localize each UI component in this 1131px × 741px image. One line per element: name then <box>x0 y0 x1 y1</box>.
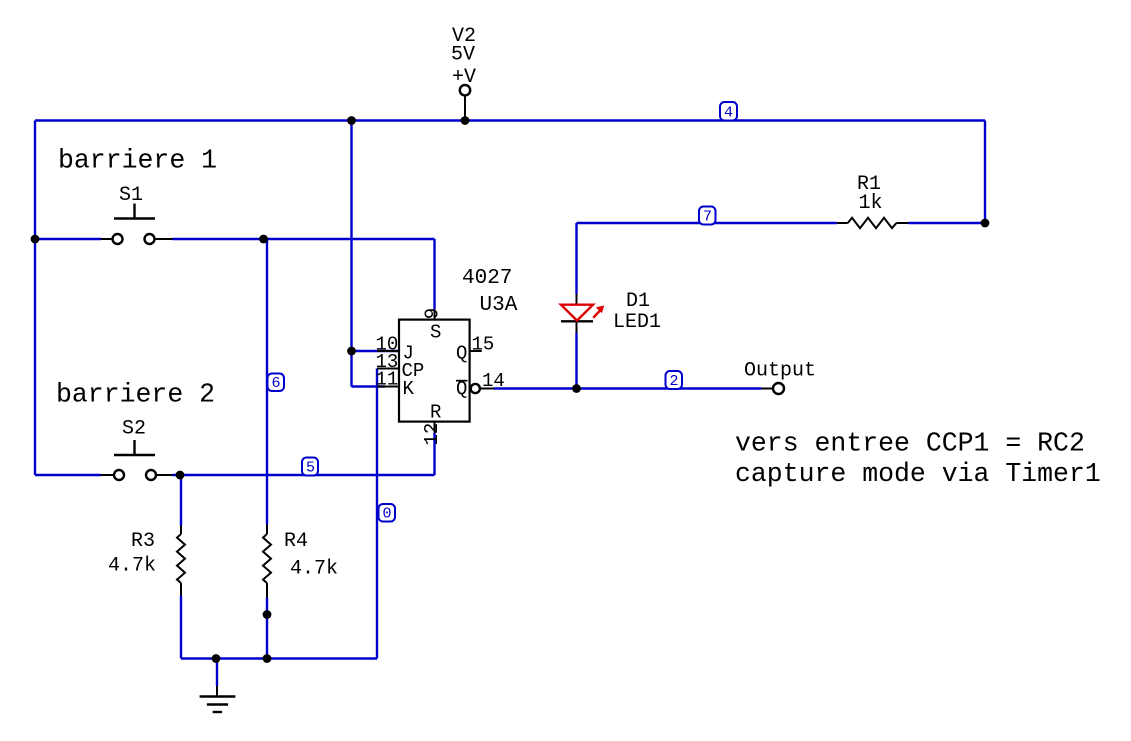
svg-text:R3: R3 <box>131 530 155 553</box>
svg-text:barriere 2: barriere 2 <box>56 380 215 410</box>
svg-text:4: 4 <box>724 105 733 122</box>
svg-text:0: 0 <box>383 506 392 523</box>
svg-text:Output: Output <box>744 360 816 383</box>
svg-text:1k: 1k <box>859 192 883 215</box>
svg-text:vers entree CCP1 = RC2: vers entree CCP1 = RC2 <box>735 428 1085 458</box>
svg-text:capture mode via Timer1: capture mode via Timer1 <box>735 459 1101 489</box>
svg-text:14: 14 <box>482 370 505 392</box>
svg-text:Q: Q <box>456 343 467 365</box>
svg-text:D1: D1 <box>626 290 650 313</box>
svg-text:K: K <box>403 378 415 400</box>
svg-text:LED1: LED1 <box>613 311 661 334</box>
svg-text:4.7k: 4.7k <box>290 558 338 581</box>
svg-text:12: 12 <box>421 423 443 446</box>
svg-text:5V: 5V <box>451 44 475 67</box>
svg-text:6: 6 <box>272 375 281 392</box>
svg-text:S1: S1 <box>119 184 143 207</box>
svg-text:U3A: U3A <box>480 294 518 317</box>
svg-text:7: 7 <box>703 209 712 226</box>
svg-text:R: R <box>430 402 441 424</box>
svg-text:S: S <box>430 322 441 344</box>
svg-text:15: 15 <box>472 334 495 356</box>
svg-text:S2: S2 <box>122 418 146 441</box>
svg-text:5: 5 <box>306 460 315 477</box>
svg-text:R4: R4 <box>284 530 308 553</box>
svg-text:barriere 1: barriere 1 <box>58 146 217 176</box>
svg-text:2: 2 <box>670 373 679 390</box>
svg-text:Q: Q <box>456 378 467 400</box>
svg-text:11: 11 <box>376 369 399 391</box>
svg-text:4.7k: 4.7k <box>108 555 156 578</box>
svg-text:4027: 4027 <box>462 267 512 290</box>
svg-text:+V: +V <box>452 66 476 89</box>
svg-text:9: 9 <box>421 308 443 319</box>
